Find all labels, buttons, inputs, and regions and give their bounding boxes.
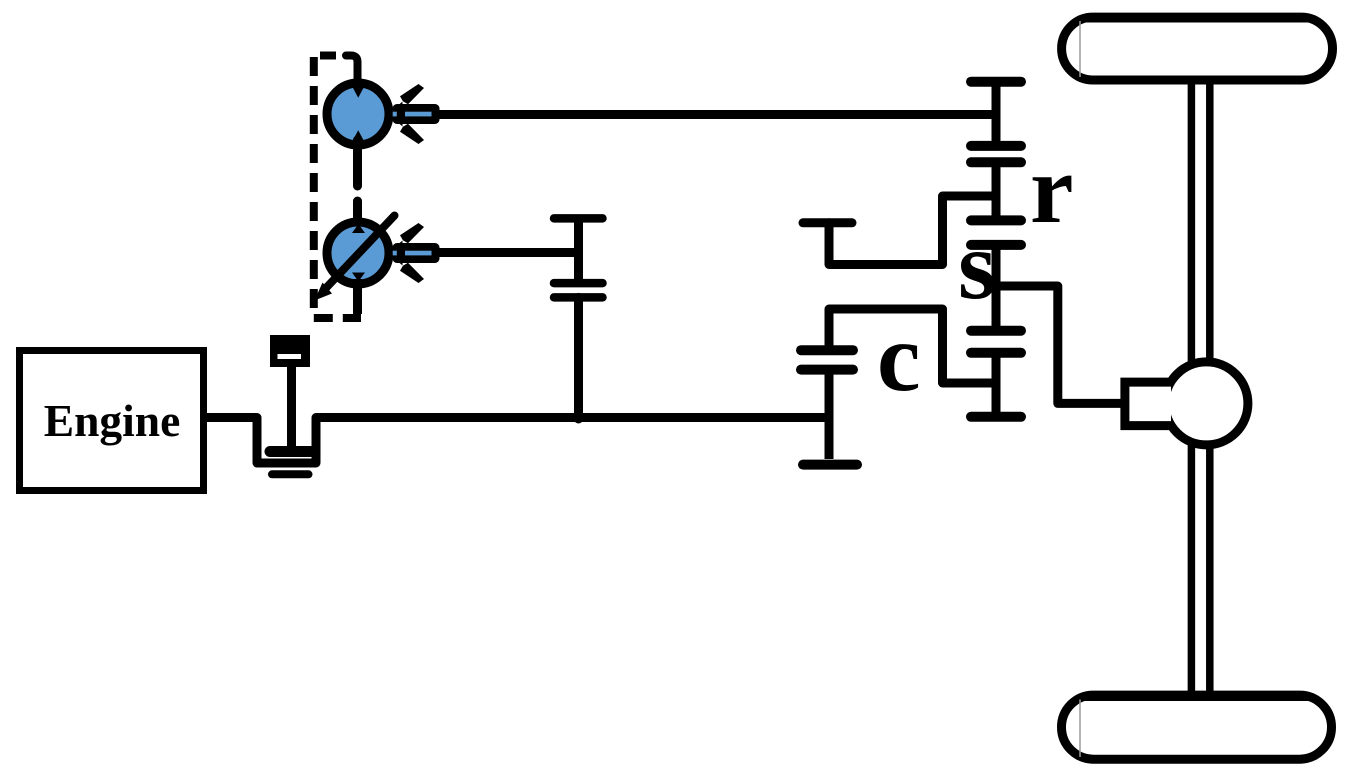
pump P2 variable arrowhead: [315, 283, 333, 301]
clutch C2 lower stem: [825, 370, 834, 459]
planetary plate B1: [971, 326, 1021, 336]
differential input box: [1125, 382, 1171, 426]
brake bracket T-bar: [803, 218, 852, 227]
damper bar 2: [272, 470, 309, 478]
planetary input stem: [992, 82, 1001, 146]
damper mass block: [270, 335, 310, 367]
svg-text:s: s: [958, 212, 996, 320]
clutch C2 plate 1: [801, 345, 853, 355]
planetary sun top bar: [971, 240, 1021, 250]
dashed enclosure top-right corner + pump P1 top stem: [346, 56, 358, 88]
motor P1 bottom arrowhead: [353, 130, 365, 141]
svg-text:Engine: Engine: [44, 395, 181, 446]
wire carrier c link: [829, 309, 992, 383]
pump P2 top arrowhead: [352, 224, 365, 233]
svg-text:c: c: [877, 304, 921, 412]
clutch C1 top bar: [554, 214, 603, 223]
wire engine output with U-dip and main shaft to c-stem: [207, 418, 829, 464]
planetary plate B2: [971, 348, 1021, 358]
planetary ring stem: [992, 162, 1001, 220]
pump P2 bottom arrowhead: [352, 273, 365, 282]
engine box: [20, 351, 204, 491]
clutch C1 plate 1: [554, 279, 603, 288]
planetary top T-bar: [971, 77, 1021, 87]
planetary plate A1: [971, 141, 1021, 151]
wheel rear rim line top: [1080, 698, 1313, 701]
planetary sun stem: [992, 245, 1001, 331]
pump P2 bottom stem: [353, 279, 362, 314]
motor P1 bottom stem: [353, 140, 362, 186]
planetary ring end bar: [971, 215, 1021, 225]
wire pump P2 to clutch: [439, 248, 579, 257]
pump P2 variable arrow diagonal: [326, 216, 395, 289]
pump P2 shaft arrow: [388, 223, 440, 283]
damper bar 1: [270, 446, 311, 457]
damper slot: [278, 354, 302, 359]
differential circle: [1165, 362, 1248, 445]
axle upper: [1188, 84, 1196, 375]
clutch C1 upper stem: [574, 218, 583, 283]
wire sun to final drive: [996, 286, 1122, 403]
svg-text:r: r: [1030, 136, 1074, 244]
clutch C2 bottom bar: [803, 460, 857, 470]
wire brake to ring gear r: [829, 196, 992, 265]
wheel front: [1062, 17, 1333, 80]
planetary carrier stem: [992, 353, 1001, 417]
damper stem: [287, 367, 296, 447]
wheel rear rim line bottom: [1080, 756, 1313, 759]
wire motor P1 to planetary input: [439, 110, 996, 119]
motor P1 shaft arrow: [388, 84, 440, 144]
wheel front rim line bottom: [1080, 76, 1313, 79]
clutch C1 plate 2: [554, 293, 603, 302]
wheel rear rim left edge: [1079, 700, 1081, 758]
motor P1 circle: [327, 83, 389, 145]
clutch C2 upper stem: [825, 309, 834, 346]
planetary plate A2: [971, 157, 1021, 167]
wheel front rim line top: [1080, 20, 1313, 23]
pump P2 circle: [327, 222, 389, 284]
wheel rear: [1062, 695, 1332, 759]
clutch C2 plate 2: [801, 365, 853, 375]
dashed enclosure top dash: [320, 52, 336, 60]
dashed enclosure left+bottom: [314, 57, 361, 318]
motor P1 top arrowhead: [353, 87, 365, 98]
wheel front rim left edge: [1079, 21, 1081, 77]
axle lower: [1188, 432, 1196, 692]
planetary bottom T-bar: [971, 412, 1021, 422]
pump P2 top stem: [353, 201, 362, 228]
clutch C1 lower stem to main shaft: [574, 297, 583, 419]
